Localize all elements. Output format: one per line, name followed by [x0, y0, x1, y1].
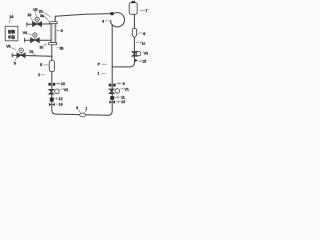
- accumulator 5 (capsule vessel): [49, 60, 54, 71]
- label 14: [56, 103, 63, 107]
- label 8: [138, 32, 146, 36]
- coil 4 (condenser curl): [110, 13, 124, 27]
- svg-text:1c: 1c: [142, 41, 146, 45]
- label 7: [140, 9, 147, 13]
- svg-text:7: 7: [146, 9, 148, 13]
- label 2: [38, 73, 45, 77]
- svg-text:V6: V6: [6, 45, 10, 49]
- label V2: [60, 88, 68, 92]
- label 11: [115, 96, 125, 100]
- valve V2: [49, 89, 60, 94]
- svg-text:V2: V2: [64, 88, 68, 92]
- svg-text:3a: 3a: [40, 14, 44, 18]
- label V4: [23, 31, 32, 35]
- wire V5 line with left end cap: [27, 22, 51, 26]
- component 11 (dark block): [110, 96, 114, 100]
- wire right column vertical with bottom elbow: [108, 25, 112, 116]
- wire column top riser: [54, 16, 56, 22]
- valve V1: [109, 89, 120, 94]
- label 1a: [29, 50, 35, 56]
- label 3b: [57, 47, 64, 51]
- valve V5: [33, 17, 42, 26]
- valve V3: [132, 51, 141, 56]
- label P (pressure tap): [98, 62, 107, 66]
- valve V6: [17, 48, 25, 58]
- vessel 7 cap: [131, 1, 135, 3]
- label 6: [14, 58, 17, 66]
- label 9: [116, 82, 125, 86]
- wire trap 8 to vessel 7: [133, 14, 135, 28]
- svg-text:16: 16: [9, 15, 13, 19]
- flow sensor 10 (dark block pair): [48, 83, 55, 86]
- svg-text:2: 2: [38, 73, 40, 77]
- check valve 15 (dark arrow on riser): [135, 59, 138, 62]
- label 3a: [40, 14, 49, 21]
- svg-text:V4: V4: [23, 31, 27, 35]
- label 13: [116, 100, 125, 104]
- label 15: [139, 60, 146, 64]
- trap 8 (small vessel with cone bottom): [132, 28, 136, 37]
- flow sensor 9 (dark block pair): [109, 84, 116, 87]
- svg-text:13: 13: [121, 100, 125, 104]
- fitting (dark square on top line): [111, 12, 114, 15]
- svg-text:14: 14: [59, 103, 63, 107]
- svg-text:4: 4: [102, 19, 104, 23]
- wire bottom line: [56, 114, 108, 115]
- valve V4: [31, 33, 40, 43]
- control box 16: [5, 26, 18, 41]
- svg-text:V5: V5: [33, 8, 37, 12]
- svg-text:手段: 手段: [8, 34, 16, 39]
- label 5: [40, 63, 48, 67]
- column 3 body: [51, 24, 56, 43]
- check valve 14 (dark bowtie): [49, 103, 55, 106]
- vessel 7: [129, 3, 137, 15]
- svg-text:1b: 1b: [27, 13, 31, 17]
- svg-text:V3: V3: [144, 52, 148, 56]
- label V1: [120, 88, 129, 92]
- svg-text:2b: 2b: [39, 10, 43, 14]
- svg-text:10: 10: [61, 82, 65, 86]
- label V6: [6, 45, 16, 50]
- label V3: [144, 52, 148, 56]
- svg-text:8: 8: [143, 32, 145, 36]
- svg-text:6: 6: [76, 106, 78, 110]
- label 12: [55, 97, 63, 101]
- pump (ellipse on bottom line): [80, 113, 86, 117]
- label 2b: [39, 10, 50, 18]
- svg-text:15: 15: [142, 60, 146, 64]
- svg-text:制御: 制御: [8, 29, 16, 34]
- wire branch to V3 riser: [112, 57, 134, 67]
- wire left column vertical: [52, 45, 56, 114]
- svg-text:1: 1: [98, 71, 100, 75]
- label 1 (pipe): [98, 71, 106, 75]
- label 16: [9, 15, 13, 22]
- svg-text:3c: 3c: [40, 46, 44, 50]
- label 3c: [40, 44, 47, 50]
- svg-text:9: 9: [123, 82, 125, 86]
- wire V4 line with left end cap: [25, 38, 51, 42]
- check valve 13 (dark bowtie): [109, 100, 115, 103]
- svg-text:V1: V1: [125, 88, 129, 92]
- svg-text:6: 6: [14, 61, 16, 65]
- svg-text:3b: 3b: [60, 47, 64, 51]
- svg-text:5: 5: [40, 63, 42, 67]
- label 1b: [27, 13, 32, 21]
- label 10: [56, 82, 65, 86]
- wire riser V3 to trap 8: [133, 38, 135, 52]
- label 1c: [136, 41, 145, 45]
- label V5: [33, 8, 37, 17]
- pump label right: [85, 106, 88, 113]
- svg-text:12: 12: [59, 97, 63, 101]
- label 4 with dashed arrow: [102, 19, 112, 23]
- svg-text:11: 11: [121, 96, 125, 100]
- component 12 (dark block): [50, 98, 54, 102]
- label 3: [57, 29, 63, 33]
- column 3 top flange: [50, 22, 58, 24]
- svg-text:3: 3: [61, 29, 63, 33]
- wire V6 line with left end cap: [12, 53, 52, 57]
- pump label left: [76, 106, 81, 113]
- column 3 bottom flange: [49, 43, 57, 45]
- wire top line: [55, 14, 110, 17]
